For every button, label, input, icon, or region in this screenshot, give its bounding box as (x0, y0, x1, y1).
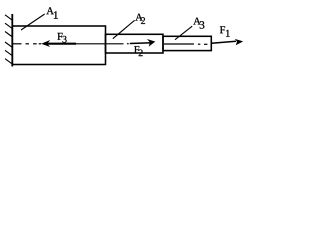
bar section 3 (area A3) (163, 36, 211, 50)
label A3 (193, 18, 200, 25)
force F3 arrow (left) (44, 43, 76, 45)
leader line A3 (175, 26, 192, 40)
wall support line (11, 14, 13, 67)
label F2 (134, 46, 139, 53)
leader line A1 (21, 14, 45, 30)
leader line A2 (113, 20, 135, 38)
label F1 (220, 26, 225, 33)
label A2 (135, 14, 142, 21)
wall hatching (5, 15, 13, 64)
label F3 (57, 33, 62, 40)
bar section 1 (area A1) (12, 26, 105, 65)
force F2 arrow (middle, right) (130, 42, 152, 45)
bar section 2 (area A2) (106, 34, 164, 53)
label A1 (46, 7, 53, 14)
force F1 arrow (right end) (212, 41, 237, 43)
centerline (dash-dot axis) (12, 43, 207, 46)
